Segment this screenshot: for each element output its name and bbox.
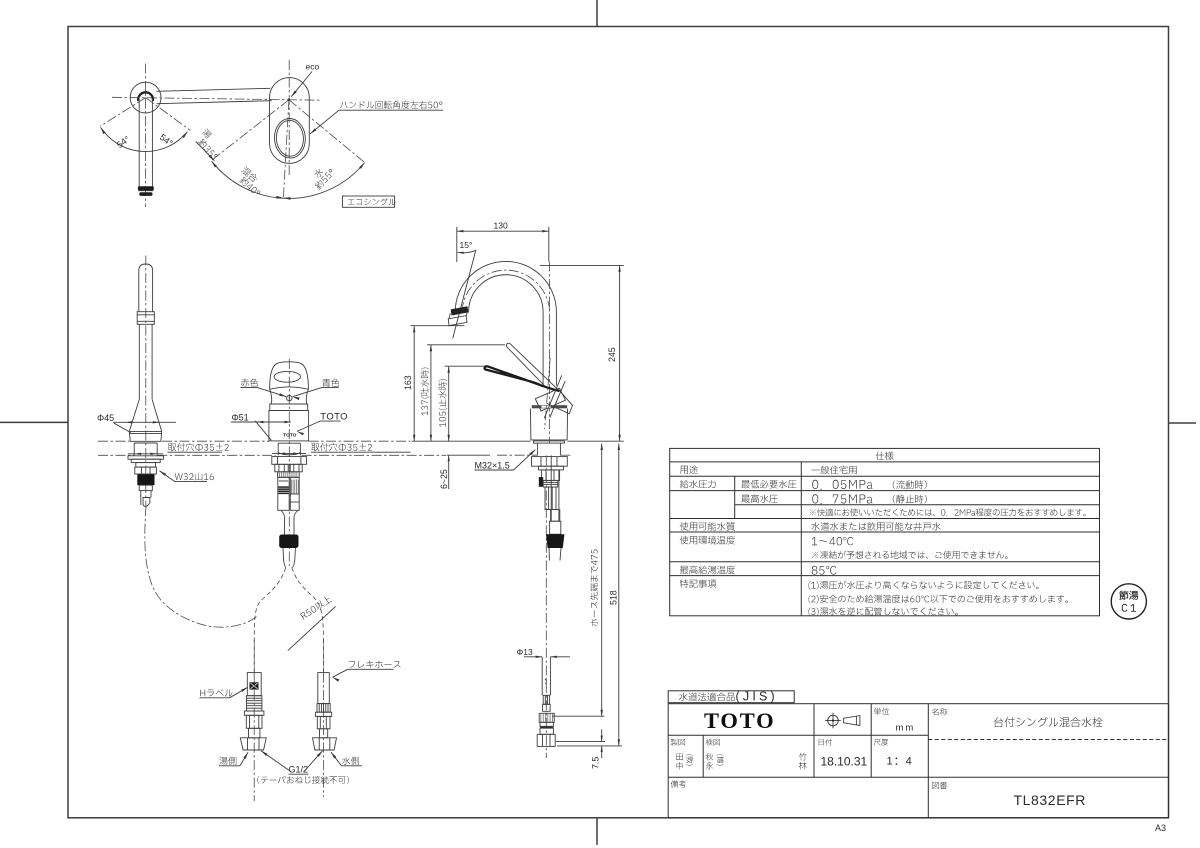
svg-text:TOTO: TOTO xyxy=(283,432,297,437)
left view washer plate xyxy=(131,459,160,462)
left swivel fan 54deg right radial xyxy=(146,98,191,131)
hot fitting ring xyxy=(244,711,264,715)
hot zone leader line xyxy=(196,142,215,161)
right view threaded shank M32 xyxy=(537,443,539,455)
front view hot hose fitting with stripes xyxy=(278,477,289,510)
row special notes xyxy=(680,579,716,588)
left view flange plate xyxy=(128,456,164,459)
hot fitting hose tube xyxy=(247,673,261,696)
title block vertical dividers xyxy=(813,704,815,736)
svg-text:18.10.31: 18.10.31 xyxy=(821,755,868,769)
cold fitting neck xyxy=(320,729,328,738)
checker stamp akinaga xyxy=(706,753,713,760)
W32 thread label xyxy=(175,473,214,481)
svg-text:Φ45: Φ45 xyxy=(97,413,114,423)
cold zone label 55deg xyxy=(313,167,324,178)
row water quality xyxy=(680,522,735,531)
pressure note xyxy=(810,508,1086,516)
top view handle pivot dot xyxy=(288,98,291,101)
name cell xyxy=(932,708,947,715)
H label mark dark xyxy=(250,682,259,689)
front view lever dome outline xyxy=(270,362,309,389)
front view hose upper xyxy=(284,518,286,535)
hot hose dashed curve xyxy=(254,568,285,673)
hot fitting neck xyxy=(249,728,260,738)
front view twin connector nuts xyxy=(275,464,288,472)
frame centering tick bottom xyxy=(596,818,598,845)
top view arm upper line xyxy=(157,88,271,91)
cold hose dashed curve xyxy=(292,568,324,673)
left view aerator collar xyxy=(137,312,154,325)
left swivel fan arc xyxy=(101,127,188,151)
body hidden diagonal lines xyxy=(544,375,562,418)
row max pressure xyxy=(741,494,777,503)
cold fitting centerline dashed xyxy=(322,640,324,673)
drafter stamp tanaka xyxy=(676,754,682,761)
top view spout base circle xyxy=(130,82,161,113)
mounting hole phi35 arrows front view xyxy=(279,452,286,454)
title block horizontal dividers xyxy=(668,734,928,736)
dimension phi51 line and arrows xyxy=(231,421,291,423)
right fan hot-limit radial dashdot xyxy=(211,100,289,161)
left view hose adapter xyxy=(139,485,152,490)
right view weight black xyxy=(546,534,564,548)
right view hose to weight xyxy=(550,455,552,521)
svg-text:mm: mm xyxy=(896,723,916,734)
right view body cylinder xyxy=(530,409,567,440)
hot fitting cylinder xyxy=(246,715,262,728)
projection symbol circle xyxy=(828,715,839,726)
dimension 130 line xyxy=(457,230,549,232)
spray direction line 15deg xyxy=(453,250,476,339)
right view lock nut xyxy=(532,457,568,467)
left view spout tube with dome top xyxy=(139,264,153,312)
15deg arc with arrow xyxy=(458,251,476,253)
front view lever top face oval xyxy=(274,371,300,382)
gooseneck outer curve xyxy=(455,261,556,385)
svg-text:TL832EFR: TL832EFR xyxy=(1014,792,1087,808)
deck line right view xyxy=(412,440,531,442)
left view body base xyxy=(129,431,161,441)
right view base flange xyxy=(533,441,564,443)
top view vertical centerline through circle xyxy=(145,64,147,208)
svg-text:15°: 15° xyxy=(460,240,473,250)
height 137 dimension spout open xyxy=(421,368,430,416)
upper lever blade raised position xyxy=(506,343,558,390)
right view hose centerline xyxy=(545,455,547,758)
front view body cylinder xyxy=(269,411,309,441)
svg-text:6~25: 6~25 xyxy=(439,469,449,489)
right view connector stack xyxy=(541,470,559,481)
cold fitting hose tube xyxy=(318,673,330,704)
frame centering tick top xyxy=(596,0,598,27)
top view horizontal centerline xyxy=(112,97,322,100)
bottom hose stub sections xyxy=(543,695,549,704)
cold fitting ring xyxy=(316,712,332,716)
front view knurled band xyxy=(278,472,300,478)
specification table grid xyxy=(670,448,1100,615)
left view hose routing loop dashdot xyxy=(145,506,257,627)
top view spout inner circle thick xyxy=(138,92,153,101)
row usage xyxy=(680,466,698,474)
front view lever neck sides xyxy=(270,389,272,404)
drawing number cell xyxy=(932,782,947,789)
front view hose merge xyxy=(281,510,285,518)
gooseneck inner curve xyxy=(469,275,543,386)
cold fitting hex nut G1/2 xyxy=(313,738,337,750)
row supply pressure xyxy=(680,480,716,489)
hot zone label yu 35deg xyxy=(201,128,212,139)
svg-text:eco: eco xyxy=(306,62,320,72)
svg-text:(JIS): (JIS) xyxy=(736,690,778,704)
top view tilted handle axis centerline xyxy=(283,100,289,199)
counter bottom line right view xyxy=(497,454,538,456)
front view lever dome bottom edge xyxy=(270,387,309,389)
front view hole ellipse arc xyxy=(278,452,300,455)
top view handle inner oval ring outer xyxy=(273,118,306,159)
handle rotation note text xyxy=(340,101,442,109)
left view rubber bush black xyxy=(137,474,154,485)
left view cone seam lines xyxy=(129,430,161,432)
cold side label xyxy=(342,757,359,765)
remarks cell xyxy=(671,780,686,787)
front view shank through counter xyxy=(277,443,279,455)
height 105 dimension spout closed xyxy=(438,379,447,427)
svg-text:7.5: 7.5 xyxy=(591,757,601,769)
top view handle inner oval ring inner xyxy=(275,120,304,157)
svg-text:Φ51: Φ51 xyxy=(232,412,249,422)
right view coupling above weight xyxy=(551,510,560,522)
hot fitting stripe band xyxy=(247,696,262,711)
left view lock nut xyxy=(135,467,157,474)
svg-text:163: 163 xyxy=(403,375,413,390)
mounting hole label left view xyxy=(168,443,229,451)
dimension phi45 line and arrows xyxy=(113,421,176,423)
body tilted centerline xyxy=(545,358,551,429)
label blue color xyxy=(322,379,339,387)
top view spout tube xyxy=(138,99,140,186)
eco leader arrow xyxy=(291,72,312,97)
bottom fitting cap xyxy=(537,734,555,746)
front view hose below weight xyxy=(283,548,286,567)
left view hose stub and foot xyxy=(140,491,142,505)
svg-text:245: 245 xyxy=(607,347,617,362)
row ambient temperature xyxy=(680,536,735,545)
front view wide flange xyxy=(272,457,307,465)
front view hose weight black xyxy=(279,535,298,549)
row max hot water temperature xyxy=(680,566,735,575)
spout outlet end cap xyxy=(448,316,467,326)
title block outer xyxy=(668,704,1168,818)
bottom fitting knurl xyxy=(539,713,554,722)
body top tilted cap xyxy=(535,388,565,411)
lever tail xyxy=(547,389,573,414)
gooseneck centerline arc dashdot xyxy=(462,270,550,312)
left swivel fan 54deg left radial xyxy=(100,98,145,127)
hot fitting centerline dashed xyxy=(253,640,255,673)
top view spout end cap dark bands xyxy=(138,186,154,190)
JIS compliance box xyxy=(668,691,794,703)
eco single boxed label xyxy=(343,196,395,207)
top view arm lower line xyxy=(157,101,272,104)
left view cone flare xyxy=(129,399,139,431)
svg-text:Φ13: Φ13 xyxy=(517,647,534,657)
svg-text:1：4: 1：4 xyxy=(887,756,913,768)
front view cap band xyxy=(270,404,308,411)
top view handle oval body xyxy=(270,78,310,164)
svg-text:M32×1.5: M32×1.5 xyxy=(475,460,510,470)
mounting hole label front view xyxy=(311,443,372,451)
svg-text:518: 518 xyxy=(609,590,619,605)
right fan arrows at handle axis crossing xyxy=(276,196,283,199)
hot fitting hex nut G1/2 xyxy=(240,738,266,750)
frame centering tick right xyxy=(1169,422,1197,424)
front view indicator screw circle xyxy=(287,395,292,400)
lower lever blade thick current position xyxy=(485,366,560,391)
flexible hose label xyxy=(349,661,401,669)
hose bend radius label R50 xyxy=(300,595,333,620)
left view shank below washer xyxy=(136,463,156,468)
right view bottom hose phi13 xyxy=(541,657,543,695)
left view mounting shank xyxy=(133,443,135,456)
mix zone label 40deg xyxy=(241,166,259,183)
water saving badge setsuyu C1 xyxy=(1111,584,1146,619)
front view vertical centerline xyxy=(288,359,290,566)
drafting cells headers xyxy=(671,739,685,746)
H label text and leader xyxy=(200,689,232,696)
deck counter top dashdot line left xyxy=(98,440,130,442)
right fan cold-limit radial dashdot xyxy=(289,100,365,163)
checker stamp takebayashi xyxy=(799,753,807,761)
right fan main arc xyxy=(212,161,365,198)
projection symbol cone xyxy=(843,716,860,726)
top view vertical centerline through oval xyxy=(288,60,290,177)
frame centering tick left xyxy=(0,421,68,423)
mounting hole phi35 arrows left view xyxy=(135,453,142,455)
left view lower tube xyxy=(138,324,140,399)
body top seam dark band xyxy=(532,405,567,408)
label red color xyxy=(241,378,258,386)
svg-text:130: 130 xyxy=(494,220,508,230)
handle rotation note underline xyxy=(339,109,443,111)
hot side label xyxy=(219,757,236,765)
handle rotation leader arrow xyxy=(310,110,339,134)
svg-text:TOTO: TOTO xyxy=(704,708,775,733)
unit cell xyxy=(874,708,889,715)
svg-text:A3: A3 xyxy=(1155,823,1166,833)
right view pipe centerline xyxy=(549,262,551,444)
taper screw note xyxy=(257,776,349,784)
dimension 130 extension lines xyxy=(456,227,458,262)
table title shiyou xyxy=(876,452,894,461)
front view cold hose fitting knurled xyxy=(290,477,299,510)
right view nut second tier xyxy=(538,466,563,470)
cold fitting stripe band xyxy=(317,704,330,713)
deck counter bottom dashdot line xyxy=(98,454,134,456)
cold fitting cylinder xyxy=(317,716,330,728)
hose length 475 dimension xyxy=(590,550,598,627)
left view vertical centerline xyxy=(145,256,147,509)
right view hose below weight xyxy=(548,548,550,561)
spout outlet aerator band dark xyxy=(451,306,469,315)
